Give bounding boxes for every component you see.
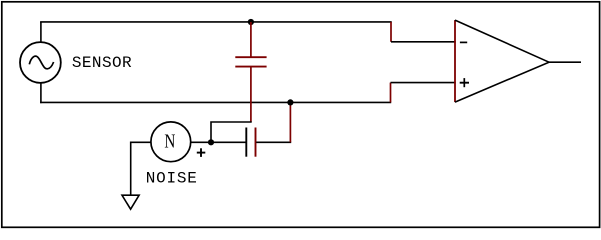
wire jog to non-inverting input (red) [390, 83, 392, 103]
op-amp U1 [455, 20, 549, 102]
wire inverting input [391, 41, 456, 43]
wire from C1 to noise node [211, 122, 252, 142]
wire noise node to C2 [211, 141, 246, 143]
wire output [549, 61, 582, 63]
wire jog to inverting input (red) [390, 22, 392, 42]
svg-text:N: N [164, 130, 175, 152]
node junction on bottom rail [287, 99, 293, 105]
polarity plus of noise source [197, 148, 206, 157]
plus symbol [460, 82, 469, 84]
ground [122, 195, 139, 209]
wire bottom rail [40, 101, 391, 103]
wire noise right lead [191, 141, 211, 143]
svg-text:SENSOR: SENSOR [72, 54, 132, 72]
sensor source VS1 [20, 42, 61, 83]
wire riser to bottom rail (red) [289, 102, 291, 142]
noise source N1 [151, 122, 191, 162]
svg-text:NOISE: NOISE [146, 169, 198, 187]
capacitor C1 [235, 57, 266, 66]
minus symbol [460, 41, 467, 43]
wire sensor bottom lead [40, 83, 42, 103]
node noise/C2 junction [208, 139, 214, 145]
wire sensor top lead [40, 22, 42, 42]
wire non-inverting input [391, 82, 456, 84]
capacitor C2 [246, 128, 255, 157]
capacitor C1 bottom lead (red, crosses bottom rail) [250, 67, 252, 122]
wire top rail [40, 21, 392, 23]
wire C2 to riser [256, 141, 291, 143]
capacitor C1 top lead (red) [250, 22, 252, 57]
node junction on top rail [248, 19, 254, 25]
wire noise left lead [131, 142, 152, 195]
